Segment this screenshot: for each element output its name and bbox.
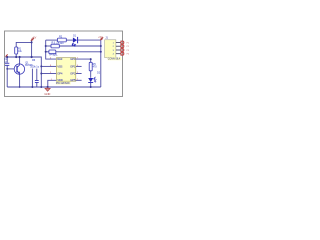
- wire: mid vertical b with C2: [36, 69, 38, 87]
- wire: R2 left lead: [46, 39, 58, 41]
- svg-text:220: 220: [60, 42, 65, 45]
- sheet border frame: [5, 31, 123, 97]
- junction dots on right stem: [100, 45, 102, 47]
- svg-text:CONN-SIL4: CONN-SIL4: [108, 59, 121, 61]
- svg-text:VDD: VDD: [57, 78, 63, 82]
- wire: Q1 emitter to ground rail: [19, 73, 21, 87]
- wire: R1 top link to VCC stem: [16, 42, 31, 47]
- junction dots on V1: [40, 65, 42, 67]
- power flag left rail: [5, 54, 7, 57]
- wire: Q1 collector to rail: [19, 57, 21, 65]
- wire: LED D1 to right stem: [78, 39, 101, 41]
- wire: R4 to right stem: [56, 51, 101, 53]
- svg-text:P4: P4: [127, 54, 130, 56]
- wire: R5 to LED D2: [90, 71, 92, 78]
- wire: upper-left VCC rail y=57 turning down at x=41.3: [5, 57, 41, 87]
- svg-text:R6: R6: [32, 59, 36, 62]
- wire: R3 left lead: [46, 45, 51, 47]
- resistor R2: [58, 36, 67, 45]
- wire: mid vertical a: [31, 69, 33, 87]
- wire: R1 bottom to rail: [15, 54, 17, 57]
- LED D2: [88, 77, 96, 83]
- svg-text:+5V: +5V: [98, 37, 103, 39]
- wire: IC right stub pin2: [76, 65, 82, 67]
- wire: C1 top connection: [6, 57, 8, 63]
- wire: R4 left lead: [46, 51, 49, 53]
- wire: LED D2 to ground rail: [90, 83, 92, 87]
- svg-text:D2: D2: [97, 71, 101, 74]
- IC red pin numbers left: [50, 58, 53, 81]
- junction dot base branch: [6, 68, 8, 70]
- wire: IC pin3 row: [41, 73, 56, 75]
- LED D1: [72, 35, 78, 47]
- junction dots on VCC rail: [6, 56, 8, 58]
- svg-text:P3: P3: [127, 50, 130, 52]
- wire: IC right pin1 to R5: [76, 59, 91, 62]
- IC red pin numbers right: [77, 58, 79, 81]
- svg-text:RA3: RA3: [57, 57, 63, 61]
- svg-text:10k: 10k: [18, 51, 23, 53]
- power symbol VCC2: [98, 37, 103, 41]
- capacitor C1: [4, 59, 9, 66]
- wire: Q1 base wire from C1 net: [7, 68, 14, 70]
- power symbol VCC1: [30, 37, 36, 41]
- svg-text:100k 1u: 100k 1u: [30, 66, 40, 69]
- wire: R3 to right stem: [59, 45, 101, 47]
- connector red pads: [121, 41, 130, 56]
- svg-text:+5V: +5V: [32, 37, 37, 39]
- wire: C1 bottom to ground rail: [6, 66, 8, 88]
- svg-text:470: 470: [93, 65, 98, 68]
- ground symbol: [44, 87, 50, 96]
- svg-text:P1: P1: [127, 43, 130, 45]
- wire: bottom ground rail y=87: [7, 86, 101, 88]
- svg-text:GP1: GP1: [70, 65, 76, 69]
- wire: left bus V2 into IC pin1: [46, 40, 57, 59]
- junction dot R1 top branch: [31, 41, 33, 43]
- connector J1 body: [105, 37, 122, 61]
- wire: IC pin4 row to ground: [48, 80, 57, 87]
- svg-text:P2: P2: [127, 46, 130, 48]
- svg-text:GP2: GP2: [70, 72, 76, 76]
- wire: right VCC stem x=100.8: [100, 40, 102, 87]
- wire: R2 to LED D1: [66, 39, 73, 41]
- transistor Q1: [14, 64, 24, 74]
- wire: IC right stub pin3: [76, 73, 82, 75]
- svg-text:U1: U1: [54, 52, 59, 56]
- junction dots on bus V2: [45, 45, 47, 47]
- resistor R3: [51, 42, 60, 48]
- IC U1: [54, 52, 76, 85]
- wire: IC pin2 row: [41, 65, 56, 67]
- junction dots bottom rail: [31, 86, 33, 88]
- resistor R4: [49, 50, 57, 56]
- resistor R1: [15, 47, 23, 54]
- svg-text:J1: J1: [105, 37, 108, 40]
- wire: IC right stub pin4: [76, 79, 82, 81]
- svg-text:GP5: GP5: [70, 78, 76, 82]
- svg-text:GP4: GP4: [57, 72, 63, 76]
- capacitor C2: [35, 80, 39, 83]
- svg-text:VSS: VSS: [57, 65, 62, 69]
- svg-text:GND: GND: [44, 92, 50, 96]
- wire: VCC1 stem: [31, 40, 33, 57]
- resistor R5: [89, 62, 97, 71]
- junction dot R5 corner: [90, 58, 92, 60]
- connector pin stubs: [116, 43, 121, 54]
- svg-text:R3 1k: R3 1k: [52, 42, 60, 45]
- svg-text:GP0: GP0: [70, 57, 76, 61]
- svg-text:D1: D1: [73, 35, 77, 38]
